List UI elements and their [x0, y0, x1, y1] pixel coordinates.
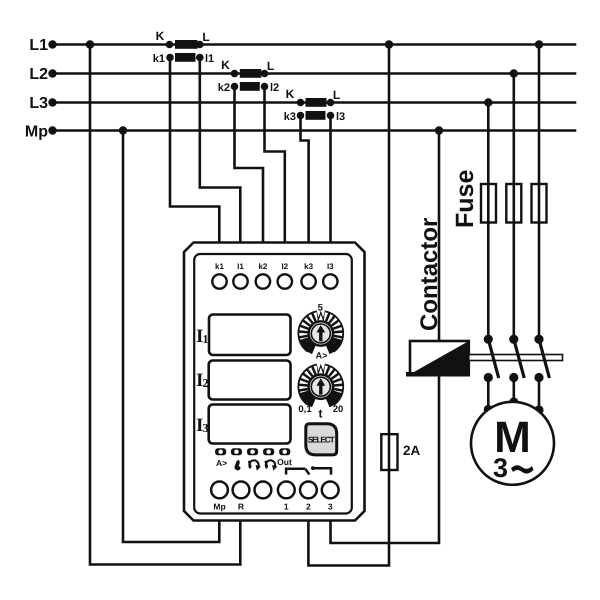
output contact 2-3: [311, 466, 331, 474]
icon hand: [234, 460, 240, 471]
svg-text:L: L: [202, 30, 209, 44]
svg-text:Out: Out: [277, 457, 292, 467]
current transformer CT1: [153, 29, 214, 65]
svg-text:A>: A>: [316, 351, 328, 361]
junction L3-fuse: [484, 98, 492, 106]
svg-text:R: R: [238, 502, 244, 512]
svg-text:L1: L1: [29, 37, 48, 54]
contactor pole 1: [484, 335, 499, 383]
wire pole3 to motor: [538, 378, 541, 411]
motor M1: [471, 402, 554, 485]
LED 1: [215, 448, 226, 455]
wire k3 to relay terminal k3: [301, 116, 309, 247]
relay top terminal I1: [233, 274, 247, 288]
relay top terminal I2: [278, 274, 292, 288]
display D1: [209, 315, 291, 356]
svg-text:1: 1: [284, 502, 289, 512]
svg-text:A>: A>: [216, 458, 227, 468]
LED 4: [263, 448, 274, 455]
relay bottom terminal c3: [255, 482, 272, 499]
bus L3: [29, 95, 575, 112]
relay bottom terminal 2: [300, 482, 317, 499]
fuse F2: [506, 184, 521, 223]
svg-text:L3: L3: [29, 95, 48, 112]
wire k1 to relay terminal k1: [170, 58, 219, 247]
display D3: [209, 405, 291, 444]
relay bottom terminal R: [233, 482, 250, 499]
svg-text:k2: k2: [258, 262, 267, 271]
fuse F3 wire through: [538, 184, 541, 223]
svg-text:K: K: [286, 87, 295, 101]
motor terminal dots: [484, 405, 493, 414]
svg-text:20: 20: [333, 404, 344, 415]
svg-text:Mp: Mp: [213, 502, 225, 512]
relay top terminal k2: [256, 274, 270, 288]
fuse F3: [532, 184, 547, 223]
svg-text:k3: k3: [284, 111, 296, 123]
relay top terminal k1: [212, 274, 226, 288]
bus L1: [29, 37, 575, 54]
contactor pole 2: [509, 335, 524, 383]
wire l1 to relay terminal I1: [200, 58, 241, 247]
relay U1 inner face: [194, 254, 352, 514]
svg-text:l3: l3: [336, 111, 345, 123]
contactor coil K1: [406, 341, 470, 374]
icon reset-arrow 2: [265, 460, 277, 470]
wire L1 to fuse F3: [538, 45, 541, 338]
svg-text:5: 5: [318, 303, 324, 314]
junction L1-fuse: [535, 40, 543, 48]
junction L1-left: [86, 40, 94, 48]
relay bottom terminal Mp: [211, 482, 228, 499]
svg-text:I1: I1: [237, 262, 244, 271]
wire Mp to contactor coil to relay terminal 3: [331, 131, 440, 544]
junction Mp-coil: [435, 126, 443, 134]
wire l3 to relay terminal I3: [329, 116, 332, 247]
svg-text:L: L: [267, 59, 274, 73]
fuse F1 wire through: [487, 184, 490, 223]
fuse F1: [481, 184, 496, 223]
svg-text:t: t: [319, 407, 323, 421]
svg-text:2: 2: [203, 376, 209, 390]
relay bottom terminal 1: [278, 482, 295, 499]
LED 2: [231, 448, 242, 455]
wire pole1 to motor: [487, 378, 490, 410]
svg-text:SELECT: SELECT: [308, 435, 336, 445]
fuse F2 wire through: [512, 184, 515, 223]
wire Mp to relay terminal Mp: [123, 131, 219, 543]
output contact 1-2: [286, 469, 309, 475]
knob t setting: [298, 364, 343, 408]
svg-text:L: L: [333, 88, 340, 102]
svg-text:l2: l2: [270, 82, 279, 94]
svg-text:3: 3: [493, 453, 508, 483]
wire L2 to fuse F2: [512, 74, 515, 338]
SELECT button: [306, 424, 337, 455]
wire L1 to 2A fuse to relay terminal 2: [308, 45, 389, 566]
svg-text:L2: L2: [29, 66, 48, 83]
wire pole2 to motor: [512, 378, 515, 403]
display D2: [209, 361, 291, 400]
fuse 2A: [381, 434, 420, 470]
wire L3 to fuse F1: [487, 103, 490, 338]
svg-text:l1: l1: [205, 53, 214, 65]
LED 5: [279, 448, 290, 455]
svg-text:3: 3: [328, 502, 333, 512]
svg-text:Contactor: Contactor: [416, 218, 443, 331]
svg-text:Mp: Mp: [25, 124, 48, 141]
current transformer CT3: [284, 87, 345, 123]
svg-text:k2: k2: [218, 82, 230, 94]
junction Mp-left: [119, 126, 127, 134]
svg-text:2: 2: [306, 502, 311, 512]
svg-text:1: 1: [203, 332, 209, 346]
svg-text:K: K: [156, 29, 165, 43]
junction L2-fuse: [510, 69, 518, 77]
svg-text:K: K: [221, 58, 230, 72]
current transformer CT2: [218, 58, 279, 94]
svg-text:3: 3: [203, 421, 209, 435]
contactor pole 3: [534, 335, 549, 383]
svg-text:k1: k1: [215, 262, 224, 271]
knob A> setting: [298, 310, 343, 354]
contactor linkage bar: [469, 355, 563, 361]
wire k2 to relay terminal k2: [235, 87, 264, 247]
svg-text:k1: k1: [153, 53, 165, 65]
svg-text:I3: I3: [327, 262, 334, 271]
LED 3: [247, 448, 258, 455]
svg-text:2A: 2A: [403, 443, 421, 458]
wire l2 to relay terminal I2: [265, 87, 285, 247]
icon reset-arrow 1: [249, 460, 261, 470]
junction L1-2A: [385, 40, 393, 48]
wire L1 to relay terminal R: [90, 45, 240, 565]
relay top terminal k3: [301, 274, 315, 288]
bus L2: [29, 66, 575, 83]
svg-text:Fuse: Fuse: [451, 170, 479, 228]
svg-text:0,1: 0,1: [298, 404, 312, 415]
relay bottom terminal 3: [322, 482, 339, 499]
relay U1 outer case: [184, 243, 365, 521]
svg-text:I2: I2: [281, 262, 288, 271]
svg-text:k3: k3: [304, 262, 313, 271]
relay top terminal I3: [323, 274, 337, 288]
bus Mp: [25, 124, 575, 141]
